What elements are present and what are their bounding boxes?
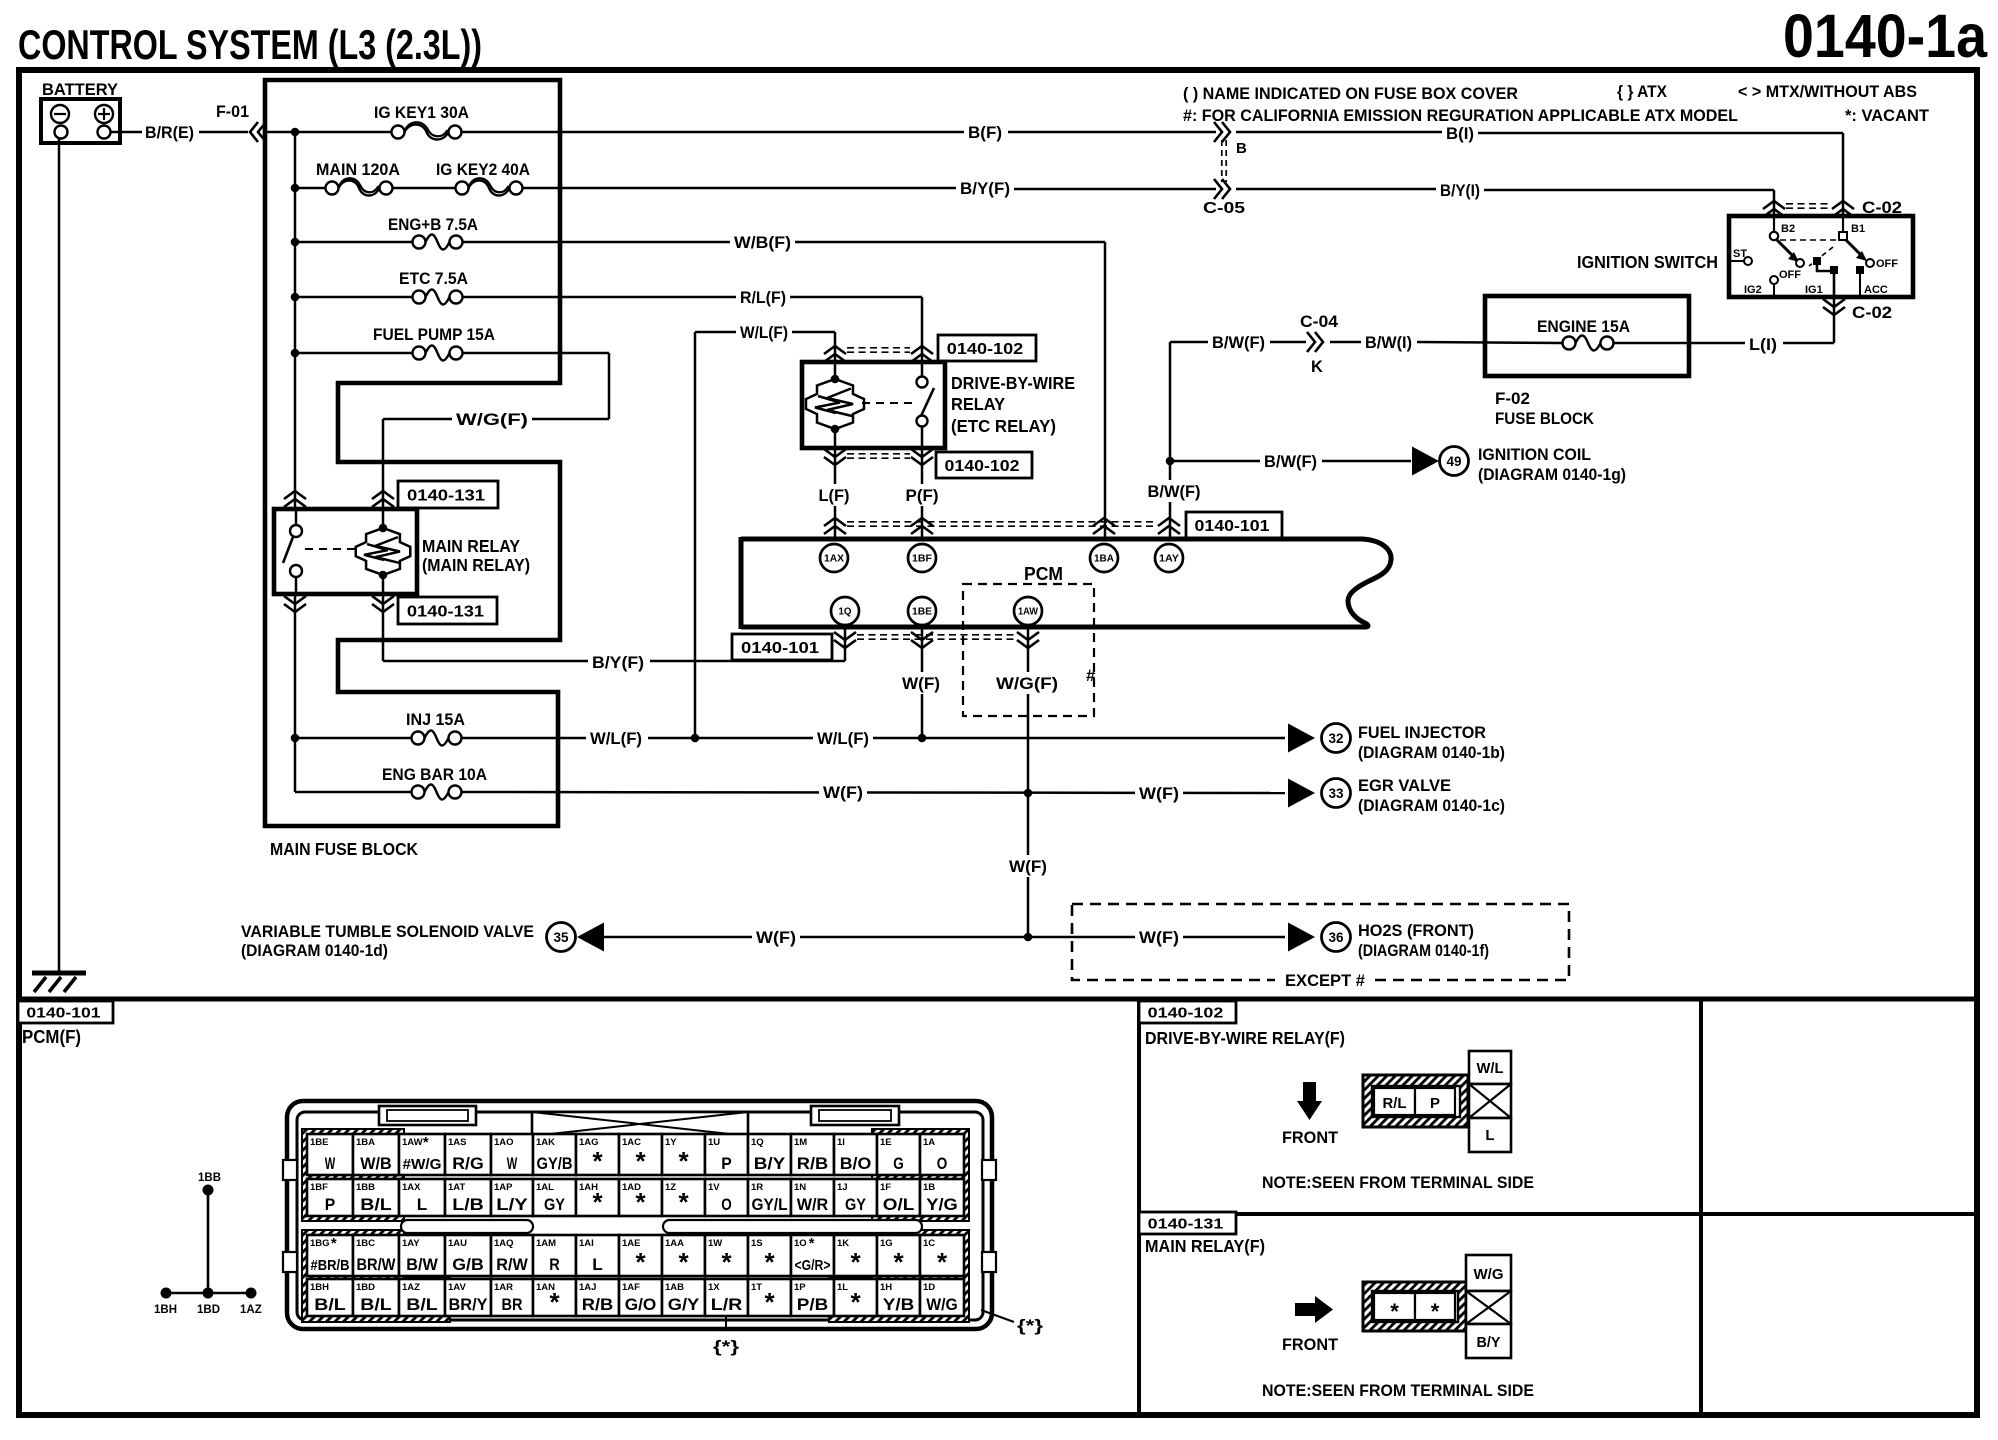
svg-text:1AX: 1AX — [402, 1182, 421, 1193]
wire W/G(F) PCM 1AW down — [1027, 629, 1030, 937]
svg-text:W/G: W/G — [1474, 1266, 1504, 1283]
svg-text:B1: B1 — [1851, 223, 1865, 235]
terminal X (vacant) — [1469, 1084, 1511, 1118]
svg-text:1BH: 1BH — [310, 1282, 329, 1293]
PCM connector keyed box with X — [532, 1112, 748, 1136]
svg-text:F-02: F-02 — [1495, 389, 1530, 408]
svg-text:1M: 1M — [794, 1137, 807, 1148]
wire B/Y(I) — [1236, 188, 1436, 191]
ignition switch pin B1 — [1842, 216, 1844, 232]
main fuse block outline — [265, 80, 560, 826]
PCM connector shielded group top-left (hatched) — [302, 1129, 404, 1221]
svg-text:1AO: 1AO — [494, 1137, 514, 1148]
connector ref 0140-102 (lower) — [936, 452, 1032, 478]
svg-text:1P: 1P — [794, 1282, 806, 1293]
wire B(I) — [1236, 131, 1442, 134]
connector ref 0140-131 panel tab — [1139, 1212, 1236, 1234]
svg-text:(DIAGRAM 0140-1b): (DIAGRAM 0140-1b) — [1358, 743, 1505, 762]
ignition switch mechanical link dashed — [1780, 239, 1837, 241]
svg-text:G/Y: G/Y — [668, 1296, 700, 1314]
svg-text:1BH: 1BH — [154, 1304, 177, 1316]
svg-text:R/B: R/B — [582, 1296, 614, 1314]
connector ref 0140-101 panel tab — [18, 1001, 113, 1023]
svg-text:1AS: 1AS — [448, 1137, 466, 1148]
svg-text:R: R — [549, 1256, 560, 1274]
svg-text:EGR VALVE: EGR VALVE — [1358, 776, 1451, 795]
svg-text:1T: 1T — [751, 1282, 762, 1293]
svg-text:*: * — [423, 1134, 429, 1151]
svg-text:Y/G: Y/G — [926, 1196, 958, 1214]
ignition switch lever B1-OFF — [1846, 240, 1862, 256]
PCM connector middle slot right — [663, 1220, 922, 1233]
svg-text:1AR: 1AR — [494, 1282, 513, 1293]
wire row IG KEY2 to B/Y(F) — [523, 187, 956, 190]
svg-text:R/B: R/B — [797, 1155, 829, 1173]
svg-text:1AZ: 1AZ — [240, 1304, 262, 1316]
fuse block F-02 — [1485, 296, 1689, 376]
connector C-02 chevron below ignition switch — [1823, 307, 1845, 315]
svg-text:W/G: W/G — [926, 1296, 958, 1314]
PCM connector shielded group top-right (hatched) — [872, 1129, 969, 1221]
main relay coil — [382, 509, 385, 528]
svg-text:0140-101: 0140-101 — [26, 1004, 100, 1021]
svg-text:1F: 1F — [880, 1182, 891, 1193]
svg-text:W: W — [507, 1155, 518, 1173]
main relay connector body (hatched) — [1363, 1282, 1466, 1331]
connector chevrons above main relay — [284, 491, 306, 499]
svg-text:OFF: OFF — [1876, 258, 1898, 270]
svg-text:#W/G: #W/G — [403, 1156, 442, 1173]
svg-text:1G: 1G — [880, 1238, 893, 1249]
ignition switch — [1729, 216, 1913, 297]
svg-text:B(F): B(F) — [968, 123, 1002, 142]
svg-text:*: * — [893, 1247, 904, 1277]
brace note right of connector — [981, 1310, 1014, 1322]
svg-text:NOTE:SEEN FROM TERMINAL SIDE: NOTE:SEEN FROM TERMINAL SIDE — [1262, 1173, 1534, 1192]
svg-text:<G/R>: <G/R> — [795, 1257, 831, 1274]
wire B/R(E) — [110, 131, 142, 134]
svg-text:C-04: C-04 — [1300, 313, 1339, 331]
svg-text:B/Y: B/Y — [754, 1155, 786, 1173]
svg-text:1Q: 1Q — [751, 1137, 764, 1148]
svg-text:PCM(F): PCM(F) — [22, 1027, 81, 1047]
wire W/L(F) riser to drive-by-wire relay — [694, 332, 697, 738]
svg-text:ENGINE 15A: ENGINE 15A — [1537, 317, 1630, 336]
PCM pin 1AW — [1014, 597, 1042, 625]
svg-text:*: * — [1390, 1299, 1399, 1324]
PCM bar torn end — [1348, 539, 1391, 627]
svg-text:1BG: 1BG — [310, 1238, 330, 1249]
connector chevrons below drive-by-wire relay — [824, 457, 846, 465]
svg-text:1U: 1U — [708, 1137, 720, 1148]
svg-text:BR/Y: BR/Y — [449, 1296, 488, 1314]
drive-by-wire relay switch — [921, 362, 924, 376]
svg-text:L(F): L(F) — [819, 486, 850, 505]
svg-text:GY: GY — [845, 1196, 866, 1214]
svg-text:36: 36 — [1328, 930, 1344, 945]
terminal B/Y — [1466, 1324, 1511, 1358]
svg-text:P: P — [721, 1155, 732, 1173]
node bus junction row1 — [291, 128, 300, 137]
connector chevrons below main relay — [284, 604, 306, 612]
svg-text:*: * — [764, 1287, 775, 1317]
svg-text:1AJ: 1AJ — [579, 1282, 596, 1293]
fuse INJ 15A — [291, 734, 300, 743]
svg-text:1AQ: 1AQ — [494, 1238, 514, 1249]
svg-text:FUEL PUMP 15A: FUEL PUMP 15A — [373, 325, 495, 344]
svg-text:1AY: 1AY — [1159, 554, 1179, 565]
fuse ETC 7.5A — [291, 293, 300, 302]
terminal P — [1415, 1088, 1455, 1115]
front arrow (right) — [1295, 1303, 1315, 1316]
connector ref 0140-131 (lower) — [398, 597, 497, 624]
svg-text:49: 49 — [1446, 454, 1461, 469]
wire row IG KEY1 to B(F) — [462, 131, 964, 134]
svg-text:1R: 1R — [751, 1182, 763, 1193]
PCM pin 1BE — [908, 597, 936, 625]
terminal L — [1469, 1118, 1511, 1152]
svg-text:1E: 1E — [880, 1137, 892, 1148]
svg-text:#BR/B: #BR/B — [311, 1257, 350, 1274]
svg-text:(DIAGRAM 0140-1d): (DIAGRAM 0140-1d) — [241, 941, 388, 960]
svg-text:L: L — [592, 1256, 603, 1274]
svg-text:RELAY: RELAY — [951, 394, 1005, 414]
svg-text:IGNITION COIL: IGNITION COIL — [1478, 445, 1591, 464]
svg-text:1AT: 1AT — [448, 1182, 465, 1193]
svg-text:*: * — [937, 1247, 948, 1277]
svg-text:IG2: IG2 — [1744, 284, 1762, 296]
svg-text:MAIN FUSE BLOCK: MAIN FUSE BLOCK — [270, 839, 418, 859]
svg-text:*: * — [721, 1247, 732, 1277]
svg-text:1BD: 1BD — [356, 1282, 375, 1293]
svg-text:*: VACANT: *: VACANT — [1845, 106, 1930, 125]
svg-text:L/B: L/B — [452, 1196, 484, 1214]
svg-text:1AI: 1AI — [579, 1238, 594, 1249]
svg-text:FUEL INJECTOR: FUEL INJECTOR — [1358, 723, 1486, 742]
svg-text:R/L: R/L — [1383, 1095, 1407, 1112]
svg-text:W/L: W/L — [1477, 1060, 1504, 1077]
svg-text:L(I): L(I) — [1749, 335, 1777, 354]
svg-text:1H: 1H — [880, 1282, 892, 1293]
PCM connector bar — [741, 537, 1363, 542]
svg-text:BATTERY: BATTERY — [42, 81, 118, 99]
PCM connector shielded group bottom-left (hatched) — [302, 1230, 450, 1322]
node W(F) junction on HO2S run — [1024, 933, 1033, 942]
svg-text:*: * — [678, 1146, 689, 1176]
svg-text:W: W — [325, 1155, 336, 1173]
svg-text:1K: 1K — [837, 1238, 849, 1249]
drive-by-wire relay connector body (hatched) — [1363, 1075, 1468, 1127]
svg-text:L/Y: L/Y — [496, 1196, 528, 1214]
arrow 36 HO2S front — [1288, 923, 1315, 952]
svg-text:W/G(F): W/G(F) — [996, 674, 1058, 693]
svg-text:#: FOR CALIFORNIA EMISSION REG: #: FOR CALIFORNIA EMISSION REGURATION AP… — [1183, 106, 1738, 125]
svg-text:W(F): W(F) — [1139, 784, 1179, 803]
svg-text:*: * — [678, 1247, 689, 1277]
svg-text:GY/B: GY/B — [537, 1155, 573, 1173]
connector ref 0140-101 (bottom left) — [732, 634, 832, 660]
wire W/B(F) — [463, 241, 730, 244]
svg-text:FRONT: FRONT — [1282, 1128, 1339, 1147]
wire W(F) row to EGR valve — [462, 792, 1285, 793]
svg-text:HO2S (FRONT): HO2S (FRONT) — [1358, 921, 1474, 940]
PCM pin 1Q — [831, 597, 859, 625]
svg-text:1BA: 1BA — [1094, 554, 1114, 565]
svg-text:EXCEPT #: EXCEPT # — [1285, 972, 1365, 990]
svg-text:1BC: 1BC — [356, 1238, 375, 1249]
svg-text:L: L — [1485, 1127, 1494, 1144]
svg-text:OFF: OFF — [1779, 269, 1801, 281]
PCM connector housing inner — [297, 1112, 983, 1320]
except # dashed box — [1072, 904, 1569, 980]
PCM pin 1AX — [820, 544, 848, 572]
svg-text:W(F): W(F) — [1009, 857, 1047, 876]
PCM connector side notch right upper — [982, 1160, 996, 1180]
svg-text:0140-131: 0140-131 — [407, 487, 485, 504]
svg-text:0140-101: 0140-101 — [741, 640, 819, 657]
brace note under pin 1X — [725, 1316, 727, 1331]
svg-text:1V: 1V — [708, 1182, 720, 1193]
svg-text:1AP: 1AP — [494, 1182, 513, 1193]
svg-text:1N: 1N — [794, 1182, 806, 1193]
wire B/W(F) to ignition coil — [1170, 460, 1260, 463]
fuse FUEL PUMP 15A — [291, 349, 300, 358]
terminal W/G — [1466, 1255, 1511, 1291]
svg-text:*: * — [850, 1247, 861, 1277]
svg-text:*: * — [592, 1146, 603, 1176]
wire B/W(F) riser from PCM 1AY — [1169, 342, 1172, 537]
svg-text:G/O: G/O — [625, 1296, 657, 1314]
node B/W junction — [1166, 457, 1175, 466]
svg-text:1AW: 1AW — [402, 1137, 423, 1148]
svg-text:1Q: 1Q — [839, 607, 852, 618]
wire W(F) PCM 1BE down to W/L run — [921, 629, 924, 738]
PCM dashed outline box — [963, 584, 1094, 716]
svg-text:1AL: 1AL — [536, 1182, 554, 1193]
wire fuse bus vertical — [294, 132, 297, 509]
svg-text:1BE: 1BE — [912, 607, 932, 618]
svg-text:P: P — [325, 1196, 336, 1214]
svg-text:W/L(F): W/L(F) — [817, 729, 869, 748]
connector chevrons into PCM top row — [824, 518, 846, 526]
connector ref 0140-131 (upper) — [398, 481, 498, 508]
PCM connector side notch right lower — [982, 1252, 996, 1272]
svg-text:GY/L: GY/L — [752, 1196, 788, 1214]
svg-text:1S: 1S — [751, 1238, 763, 1249]
svg-text:1AZ: 1AZ — [402, 1282, 420, 1293]
arrow 32 fuel injector — [1288, 724, 1315, 753]
svg-text:DRIVE-BY-WIRE: DRIVE-BY-WIRE — [951, 373, 1075, 393]
svg-text:( ) NAME INDICATED ON FUSE BOX: ( ) NAME INDICATED ON FUSE BOX COVER — [1183, 84, 1518, 103]
ignition switch pin B2 — [1773, 216, 1775, 232]
svg-text:1AW: 1AW — [1018, 607, 1039, 618]
svg-text:1AF: 1AF — [622, 1282, 640, 1293]
svg-text:W/L(F): W/L(F) — [740, 323, 788, 342]
PCM connector top tab right — [811, 1106, 899, 1125]
svg-text:R/W: R/W — [496, 1256, 528, 1274]
svg-text:ETC 7.5A: ETC 7.5A — [399, 269, 468, 288]
svg-text:1I: 1I — [837, 1137, 845, 1148]
svg-text:MAIN 120A: MAIN 120A — [316, 160, 400, 179]
svg-text:*: * — [635, 1146, 646, 1176]
svg-text:(DIAGRAM 0140-1f): (DIAGRAM 0140-1f) — [1358, 941, 1489, 960]
svg-text:1Z: 1Z — [665, 1182, 676, 1193]
svg-text:*: * — [635, 1187, 646, 1217]
svg-text:ENG BAR 10A: ENG BAR 10A — [382, 765, 487, 784]
svg-text:W/L(F): W/L(F) — [590, 729, 642, 748]
node W/L junction — [691, 734, 700, 743]
svg-text:*: * — [850, 1287, 861, 1317]
svg-text:B/W(I): B/W(I) — [1365, 333, 1412, 352]
svg-text:0140-102: 0140-102 — [947, 341, 1024, 358]
svg-text:INJ 15A: INJ 15A — [406, 710, 465, 729]
svg-text:*: * — [678, 1187, 689, 1217]
svg-text:B/W(F): B/W(F) — [1212, 333, 1265, 352]
svg-text:BR/W: BR/W — [357, 1256, 396, 1274]
svg-text:C-05: C-05 — [1203, 200, 1245, 217]
svg-text:B/W(F): B/W(F) — [1264, 452, 1317, 471]
svg-text:O/L: O/L — [883, 1196, 915, 1214]
PCM connector top tab left — [379, 1106, 476, 1125]
svg-text:0140-1a: 0140-1a — [1783, 2, 1988, 70]
PCM connector pin cells row 3 — [307, 1235, 353, 1276]
wire W(F) row bottom — [604, 936, 1285, 939]
panel divider vertical left — [1137, 999, 1141, 1415]
svg-text:< > MTX/WITHOUT ABS: < > MTX/WITHOUT ABS — [1738, 82, 1917, 101]
svg-text:*: * — [635, 1247, 646, 1277]
svg-text:1X: 1X — [708, 1282, 720, 1293]
terminal W/L — [1469, 1051, 1511, 1084]
svg-text:PCM: PCM — [1024, 564, 1063, 584]
svg-text:ENG+B 7.5A: ENG+B 7.5A — [388, 215, 478, 234]
svg-text:MAIN RELAY(F): MAIN RELAY(F) — [1145, 1236, 1265, 1256]
svg-text:0140-102: 0140-102 — [945, 458, 1020, 475]
svg-text:F-01: F-01 — [216, 102, 249, 121]
panel divider vertical right — [1699, 999, 1703, 1415]
wire L(F) — [834, 448, 837, 537]
ignition switch lever B2-OFF — [1777, 240, 1794, 257]
svg-text:DRIVE-BY-WIRE RELAY(F): DRIVE-BY-WIRE RELAY(F) — [1145, 1028, 1345, 1048]
svg-text:G: G — [893, 1155, 904, 1173]
drive-by-wire relay link (dashed) — [862, 402, 914, 404]
svg-text:1W: 1W — [708, 1238, 722, 1249]
svg-text:GY: GY — [544, 1196, 565, 1214]
wire B/W(F) top run — [1170, 341, 1208, 344]
fuse MAIN 120A — [291, 184, 300, 193]
arrow 35 variable tumble solenoid valve — [547, 923, 576, 952]
svg-text:*: * — [764, 1247, 775, 1277]
drive-by-wire relay coil — [834, 362, 837, 379]
svg-text:NOTE:SEEN FROM TERMINAL SIDE: NOTE:SEEN FROM TERMINAL SIDE — [1262, 1381, 1534, 1400]
terminal * right — [1415, 1293, 1455, 1320]
connector chevrons below PCM bottom row — [834, 640, 856, 648]
svg-text:IG KEY2 40A: IG KEY2 40A — [436, 160, 530, 179]
svg-text:(MAIN RELAY): (MAIN RELAY) — [422, 555, 530, 575]
svg-text:P/B: P/B — [797, 1296, 829, 1314]
svg-text:B/W: B/W — [406, 1256, 438, 1274]
svg-text:1L: 1L — [837, 1282, 848, 1293]
main relay switch — [295, 509, 298, 525]
svg-text:1AY: 1AY — [402, 1238, 420, 1249]
connector C-05 chevrons — [1214, 122, 1222, 142]
svg-text:B/Y(F): B/Y(F) — [960, 179, 1010, 198]
wire W/G(F) from fuel pump fuse to main relay coil — [463, 352, 609, 355]
arrow 33 EGR valve — [1288, 779, 1315, 808]
svg-text:(DIAGRAM 0140-1g): (DIAGRAM 0140-1g) — [1478, 465, 1626, 484]
PCM pin 1BF — [908, 544, 936, 572]
svg-text:B/Y: B/Y — [1477, 1334, 1501, 1351]
divider between schematic and connector panels — [19, 997, 1977, 1002]
svg-text:FUSE BLOCK: FUSE BLOCK — [1495, 409, 1595, 428]
svg-text:*: * — [1431, 1299, 1440, 1324]
svg-text:1BE: 1BE — [310, 1137, 328, 1148]
svg-text:IG KEY1 30A: IG KEY1 30A — [374, 103, 469, 122]
ignition switch contact IG1 — [1813, 257, 1821, 265]
svg-text:CONTROL SYSTEM (L3 (2.3L)): CONTROL SYSTEM (L3 (2.3L)) — [18, 21, 482, 68]
svg-text:B/O: B/O — [840, 1155, 872, 1173]
svg-text:B/R(E): B/R(E) — [145, 123, 194, 142]
svg-text:(ETC RELAY): (ETC RELAY) — [951, 416, 1056, 436]
svg-text:35: 35 — [553, 930, 569, 945]
svg-text:1AV: 1AV — [448, 1282, 466, 1293]
svg-text:1BB: 1BB — [198, 1172, 221, 1184]
svg-text:B/W(F): B/W(F) — [1148, 482, 1201, 501]
PCM connector middle slot left — [401, 1220, 533, 1233]
PCM pin 1BA — [1090, 544, 1118, 572]
svg-text:1O: 1O — [794, 1238, 807, 1249]
ignition switch contact ACC — [1856, 266, 1864, 274]
svg-text:B/L: B/L — [360, 1196, 392, 1214]
svg-text:1AU: 1AU — [448, 1238, 467, 1249]
svg-text:#: # — [1086, 666, 1096, 685]
svg-text:0140-131: 0140-131 — [407, 603, 484, 620]
svg-text:MAIN RELAY: MAIN RELAY — [422, 536, 520, 556]
svg-text:G/B: G/B — [452, 1256, 484, 1274]
ground (chassis) — [32, 971, 86, 976]
svg-text:33: 33 — [1328, 786, 1344, 801]
svg-text:VARIABLE TUMBLE SOLENOID VALVE: VARIABLE TUMBLE SOLENOID VALVE — [241, 922, 534, 941]
front arrow (down) — [1303, 1082, 1316, 1102]
svg-text:L: L — [417, 1196, 428, 1214]
wire L(I) — [1614, 342, 1689, 345]
svg-text:1BF: 1BF — [912, 554, 932, 565]
svg-text:B/L: B/L — [314, 1296, 346, 1314]
svg-text:B/Y(I): B/Y(I) — [1440, 181, 1480, 200]
svg-text:*: * — [331, 1235, 337, 1252]
drive-by-wire relay (ETC relay) — [802, 362, 945, 448]
svg-text:K: K — [1311, 358, 1323, 376]
fuse ENG+B 7.5A — [291, 238, 300, 247]
svg-text:W/B(F): W/B(F) — [734, 233, 791, 252]
terminal * left — [1374, 1293, 1415, 1320]
svg-text:*: * — [809, 1235, 815, 1252]
svg-text:W/G(F): W/G(F) — [456, 410, 528, 429]
panel divider horizontal — [1139, 1212, 1977, 1216]
svg-text:L/R: L/R — [711, 1296, 743, 1314]
svg-text:0140-102: 0140-102 — [1148, 1004, 1224, 1021]
PCM connector side notch left lower — [283, 1252, 297, 1272]
svg-text:*: * — [592, 1187, 603, 1217]
svg-text:FRONT: FRONT — [1282, 1335, 1339, 1354]
svg-text:0140-131: 0140-131 — [1148, 1215, 1224, 1232]
PCM pin 1AY — [1155, 544, 1183, 572]
arrow 49 ignition coil — [1412, 447, 1439, 476]
PCM connector pin cells row 2 — [307, 1179, 353, 1216]
ignition switch pin IG2 — [1770, 276, 1778, 284]
svg-text:1AB: 1AB — [665, 1282, 684, 1293]
svg-text:R/L(F): R/L(F) — [740, 288, 786, 307]
PCM connector shielded group bottom-right (hatched) — [829, 1230, 969, 1322]
